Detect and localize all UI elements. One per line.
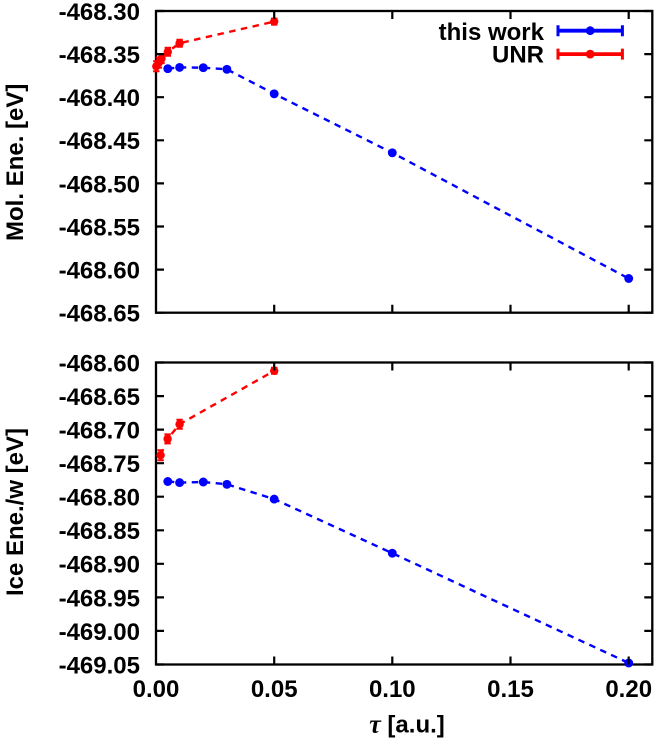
svg-text:-468.55: -468.55 [59,214,140,241]
svg-text:-468.65: -468.65 [59,301,140,328]
svg-text:0.05: 0.05 [251,676,298,703]
UNR series (bottom panel) markers [156,367,278,460]
UNR series (bottom panel) dashed line [161,371,275,455]
svg-text:-468.60: -468.60 [59,258,140,285]
UNR series (top panel) markers [152,17,278,70]
svg-text:τ [a.u.]: τ [a.u.] [369,710,445,739]
svg-text:-468.60: -468.60 [59,350,140,377]
svg-text:-468.50: -468.50 [59,171,140,198]
bottom panel x tick marks [274,363,629,665]
svg-text:0.10: 0.10 [369,676,416,703]
this-work series (bottom panel) dashed line [168,482,629,664]
this-work series (top panel) markers [163,63,633,283]
bottom panel frame [156,363,652,665]
svg-text:-468.90: -468.90 [59,552,140,579]
svg-text:0.00: 0.00 [133,676,180,703]
UNR series (top panel) error bars [153,19,277,72]
svg-text:-469.00: -469.00 [59,619,140,646]
svg-text:-468.40: -468.40 [59,85,140,112]
svg-text:UNR: UNR [492,42,544,69]
svg-text:-468.45: -468.45 [59,128,140,155]
svg-text:0.20: 0.20 [605,676,652,703]
top panel frame [156,11,652,313]
svg-text:-469.05: -469.05 [59,652,140,679]
top panel y tick marks [156,11,652,313]
svg-text:-468.30: -468.30 [59,0,140,26]
svg-text:Ice Ene./w [eV]: Ice Ene./w [eV] [2,428,29,596]
this-work series (top panel) dashed line [168,67,629,278]
top panel x tick marks [274,11,629,313]
svg-text:Mol. Ene. [eV]: Mol. Ene. [eV] [2,84,29,241]
svg-text:0.15: 0.15 [487,676,534,703]
UNR series (top panel) dashed line [156,22,274,67]
svg-text:-468.75: -468.75 [59,451,140,478]
svg-text:-468.70: -468.70 [59,418,140,445]
svg-text:-468.65: -468.65 [59,384,140,411]
UNR series (bottom panel) error bars [157,368,277,460]
bottom panel y tick marks [156,363,652,665]
svg-text:-468.35: -468.35 [59,42,140,69]
svg-text:-468.95: -468.95 [59,585,140,612]
svg-text:-468.85: -468.85 [59,518,140,545]
this-work series (bottom panel) markers [163,477,633,667]
svg-text:-468.80: -468.80 [59,485,140,512]
